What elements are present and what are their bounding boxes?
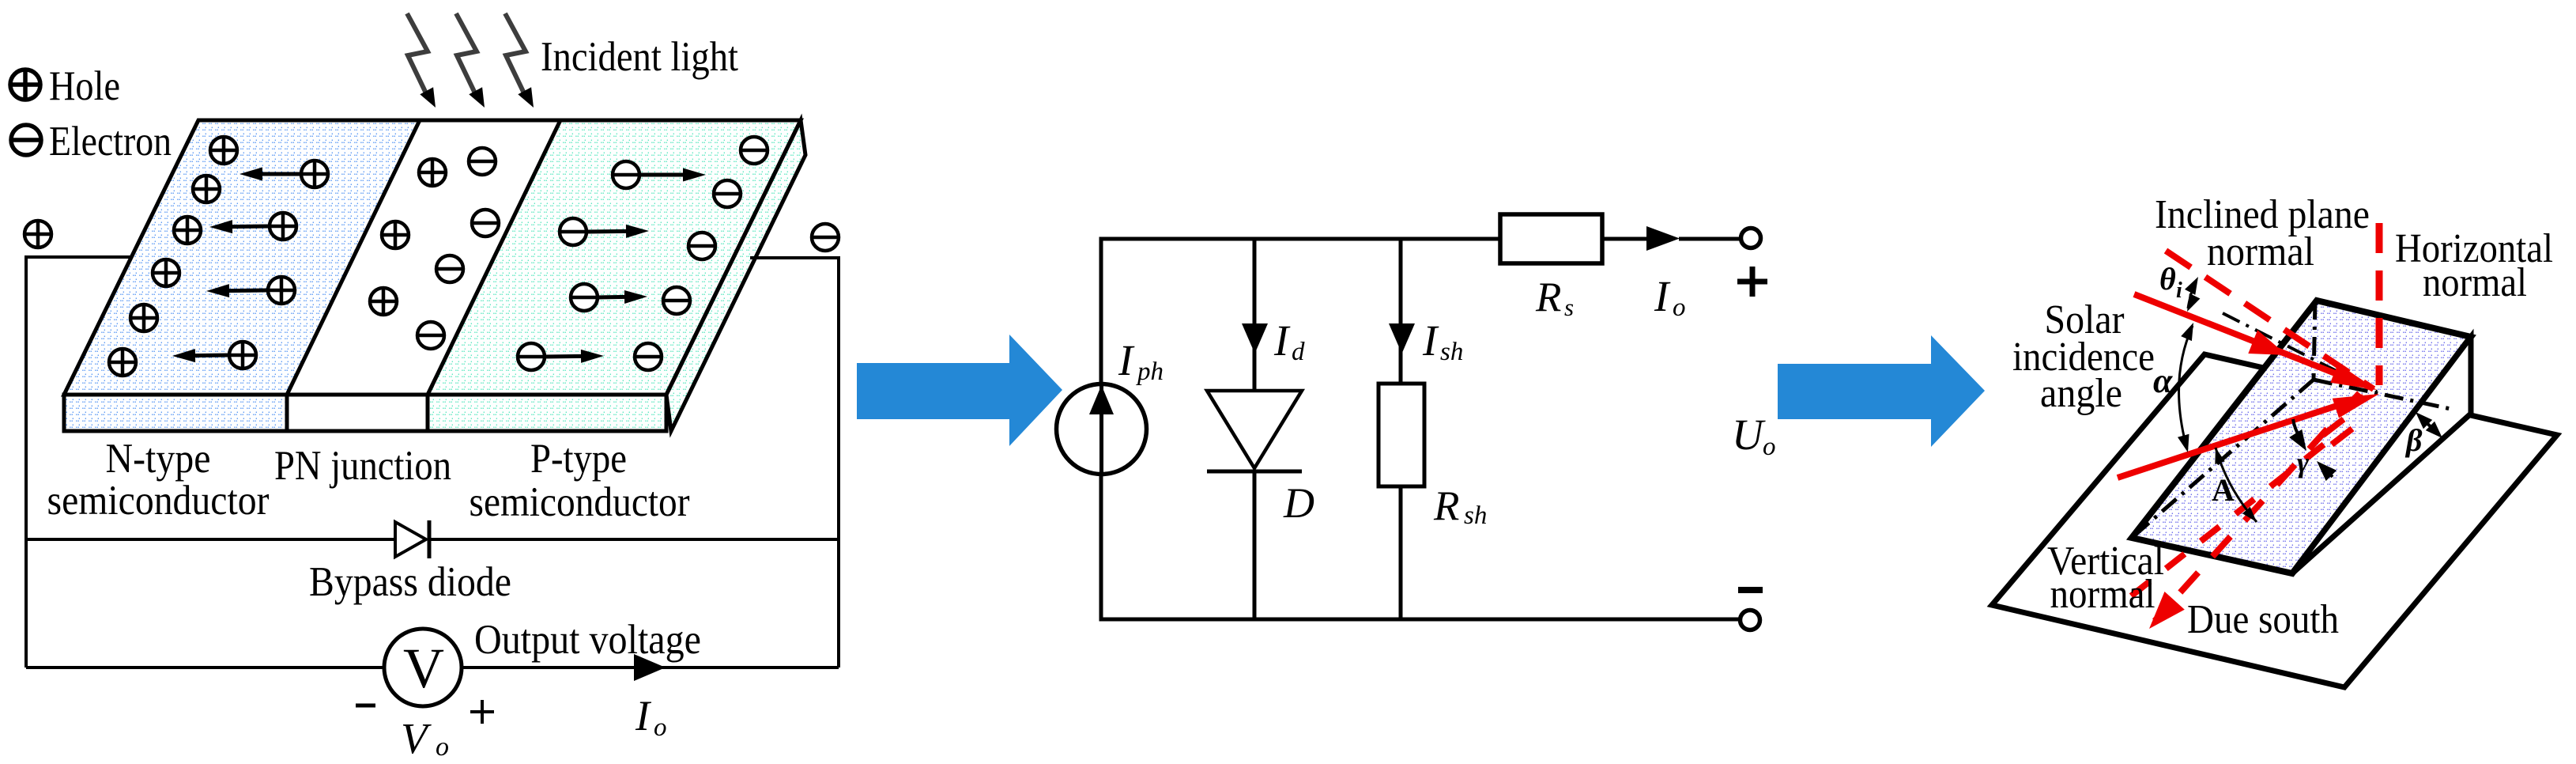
- svg-text:R: R: [1535, 274, 1561, 320]
- svg-text:P-type: P-type: [530, 436, 627, 482]
- svg-text:Due south: Due south: [2187, 597, 2339, 642]
- svg-text:Bypass diode: Bypass diode: [309, 559, 511, 605]
- svg-text:V: V: [403, 637, 444, 700]
- svg-text:o: o: [1763, 433, 1776, 461]
- svg-text:I: I: [1273, 316, 1291, 365]
- svg-text:PN junction: PN junction: [274, 443, 451, 489]
- svg-text:I: I: [1654, 272, 1671, 320]
- svg-text:β: β: [2404, 422, 2423, 458]
- svg-text:sh: sh: [1464, 501, 1487, 530]
- svg-text:γ: γ: [2297, 447, 2309, 478]
- svg-text:U: U: [1732, 410, 1766, 459]
- svg-text:d: d: [1292, 338, 1305, 366]
- svg-text:I: I: [635, 692, 652, 739]
- svg-text:s: s: [1564, 293, 1574, 321]
- svg-text:V: V: [401, 714, 432, 760]
- svg-text:o: o: [436, 732, 449, 760]
- svg-text:normal: normal: [2050, 572, 2155, 617]
- svg-text:R: R: [1433, 483, 1459, 529]
- svg-text:semiconductor: semiconductor: [47, 478, 270, 524]
- svg-text:D: D: [1283, 479, 1314, 527]
- svg-text:normal: normal: [2423, 260, 2527, 305]
- svg-text:i: i: [2176, 278, 2182, 303]
- svg-text:A: A: [2212, 472, 2235, 508]
- svg-text:θ: θ: [2159, 261, 2176, 297]
- svg-text:o: o: [1673, 293, 1686, 322]
- svg-text:sh: sh: [1440, 338, 1463, 366]
- svg-text:Electron: Electron: [49, 119, 172, 165]
- svg-text:I: I: [1118, 336, 1135, 384]
- svg-text:Output voltage: Output voltage: [474, 617, 701, 663]
- svg-text:semiconductor: semiconductor: [470, 479, 690, 525]
- svg-text:o: o: [654, 713, 667, 742]
- svg-text:ph: ph: [1136, 357, 1164, 386]
- svg-text:normal: normal: [2207, 229, 2314, 274]
- svg-text:Hole: Hole: [49, 63, 120, 109]
- svg-text:angle: angle: [2040, 371, 2122, 416]
- svg-text:α: α: [2153, 361, 2173, 400]
- svg-text:N-type: N-type: [106, 436, 211, 482]
- svg-text:I: I: [1422, 316, 1439, 365]
- svg-text:Incident light: Incident light: [541, 34, 738, 80]
